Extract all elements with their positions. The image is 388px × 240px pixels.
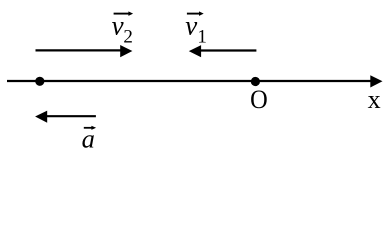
svg-text:x: x bbox=[368, 85, 381, 114]
svg-text:1: 1 bbox=[197, 26, 207, 47]
svg-text:2: 2 bbox=[123, 26, 132, 47]
svg-text:O: O bbox=[250, 84, 268, 114]
svg-text:v: v bbox=[112, 11, 124, 41]
svg-text:a: a bbox=[82, 124, 95, 154]
svg-text:v: v bbox=[185, 11, 197, 41]
